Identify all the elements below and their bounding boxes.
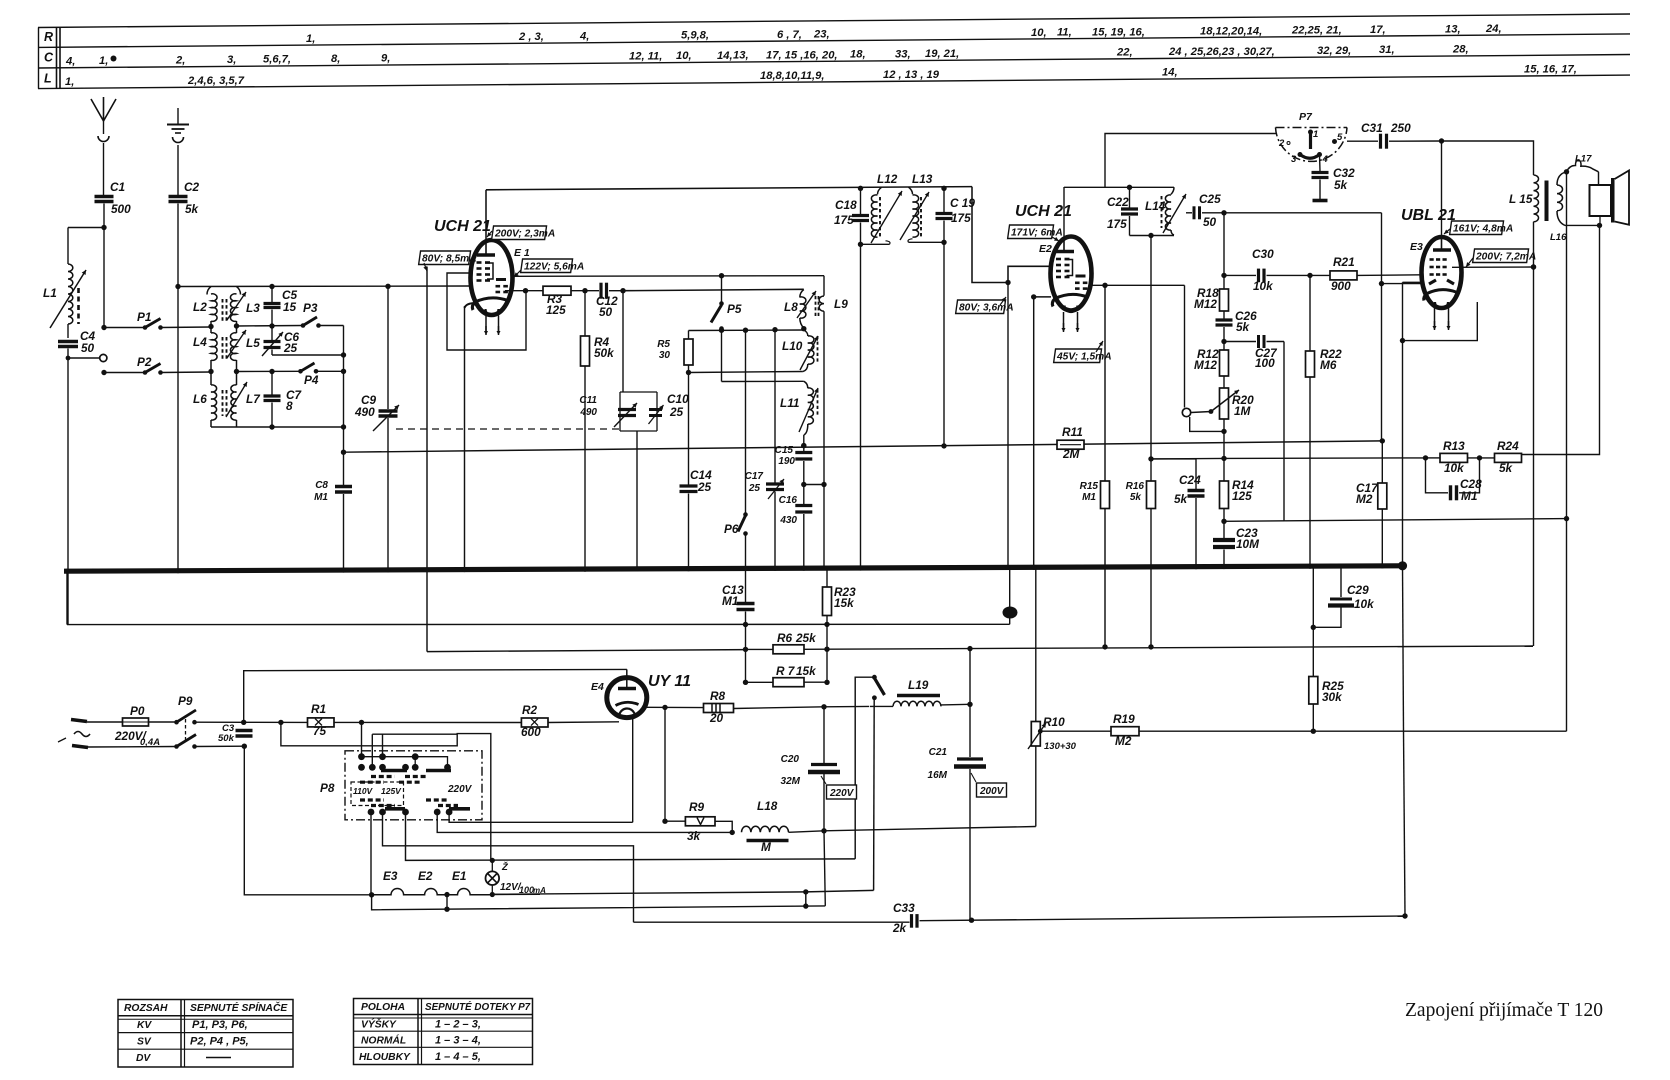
svg-text:28,: 28, bbox=[1452, 44, 1469, 56]
svg-text:4: 4 bbox=[1322, 154, 1329, 165]
wire IF2 tank top bbox=[1064, 186, 1174, 188]
svg-text:5k: 5k bbox=[1130, 492, 1142, 503]
wire L16/L17 node drop bbox=[1566, 172, 1568, 731]
svg-text:C: C bbox=[44, 51, 54, 65]
svg-text:12 , 13 , 19: 12 , 13 , 19 bbox=[883, 69, 940, 81]
svg-text:ROZSAH: ROZSAH bbox=[124, 1003, 168, 1014]
capacitor C18 bbox=[860, 188, 862, 214]
svg-text:R 7: R 7 bbox=[776, 664, 796, 678]
resistor R1 bbox=[308, 718, 335, 727]
core L12 bbox=[879, 197, 881, 237]
svg-text:5,6,7,: 5,6,7, bbox=[263, 54, 291, 66]
transformer core L6/L7 bbox=[223, 390, 227, 416]
svg-text:P0: P0 bbox=[130, 704, 145, 718]
capacitor C1 bbox=[95, 195, 114, 198]
svg-text:5: 5 bbox=[1337, 132, 1343, 143]
svg-text:M2: M2 bbox=[1356, 492, 1373, 506]
node L8 bottom / L10 top bbox=[801, 326, 806, 331]
tube E1 cathode bbox=[475, 298, 508, 302]
wire C31 to L15 bbox=[1442, 141, 1534, 175]
svg-text:15k: 15k bbox=[796, 664, 817, 678]
oscillator coil L8 bbox=[800, 290, 804, 298]
svg-text:R16: R16 bbox=[1126, 481, 1145, 492]
wire R9 to L18 bbox=[715, 821, 732, 832]
tube E4 plate bar bbox=[618, 687, 636, 690]
tube E2 plate bar bbox=[1057, 250, 1075, 253]
wire P8 out to L18 line bbox=[437, 812, 732, 832]
tube E3 heater pins bbox=[1434, 308, 1436, 327]
svg-text:10k: 10k bbox=[1253, 279, 1274, 293]
tube E3 grids bbox=[1430, 258, 1434, 261]
svg-text:M1: M1 bbox=[722, 594, 738, 608]
svg-text:1 – 4 – 5,: 1 – 4 – 5, bbox=[435, 1051, 481, 1063]
switch P7 rotor bbox=[1309, 132, 1312, 149]
wire R23 column bbox=[826, 568, 828, 587]
resistor R13 bbox=[1440, 453, 1468, 462]
wire E4 heater lead bbox=[632, 716, 634, 822]
svg-text:17,: 17, bbox=[1370, 24, 1386, 36]
wire L1 branch down to bus bbox=[67, 358, 69, 625]
svg-text:11,: 11, bbox=[1057, 27, 1072, 39]
svg-text:R5: R5 bbox=[657, 339, 670, 350]
wire E2 cathode line bbox=[1034, 296, 1051, 298]
svg-text:2: 2 bbox=[1278, 138, 1285, 149]
svg-text:161V; 4,8mA: 161V; 4,8mA bbox=[1453, 224, 1513, 235]
node C2 top line bbox=[175, 284, 180, 289]
svg-text:P3: P3 bbox=[303, 301, 318, 315]
wire E1 triode plate line bbox=[513, 275, 824, 278]
svg-text:122V; 5,6mA: 122V; 5,6mA bbox=[524, 262, 584, 273]
wire L3 bottom node bbox=[234, 323, 239, 328]
svg-text:L: L bbox=[44, 72, 52, 86]
core L11 bbox=[817, 389, 819, 417]
node R4 top bbox=[582, 288, 587, 293]
svg-text:31,: 31, bbox=[1379, 44, 1395, 56]
wire P7 contact5 to C31 bbox=[1347, 140, 1378, 142]
tube E3 bottom ring bbox=[1435, 302, 1448, 309]
svg-text:13,: 13, bbox=[1445, 23, 1461, 35]
svg-text:1,: 1, bbox=[65, 76, 74, 88]
svg-text:2,: 2, bbox=[175, 54, 185, 66]
svg-text:L2: L2 bbox=[193, 300, 207, 314]
wire R1 node to P8 bbox=[361, 722, 363, 756]
svg-text:M12: M12 bbox=[1194, 358, 1217, 372]
wire C25 node to C30 line corner bbox=[1224, 212, 1382, 214]
wire P5 bottom node line bbox=[689, 329, 804, 332]
capacitor C4 bbox=[58, 340, 78, 343]
heater bumps E3 E2 E1 bbox=[369, 892, 374, 897]
svg-text:POLOHA: POLOHA bbox=[361, 1002, 405, 1013]
svg-text:L13: L13 bbox=[912, 172, 933, 186]
wire L11 bottom to C15 bbox=[803, 435, 805, 451]
svg-text:6 , 7,: 6 , 7, bbox=[777, 29, 802, 41]
tube E3 beam plates bbox=[1429, 280, 1436, 284]
wire plate top line bbox=[486, 187, 972, 190]
svg-text:4,: 4, bbox=[65, 55, 75, 67]
wire C27 drop bbox=[1283, 342, 1285, 522]
svg-text:18,8,10,11,9,: 18,8,10,11,9, bbox=[760, 70, 825, 82]
core L13 bbox=[920, 197, 922, 237]
tube E1 internal link bbox=[485, 263, 493, 279]
svg-text:M: M bbox=[761, 840, 772, 854]
wire L9 ground column bbox=[823, 485, 825, 569]
svg-text:24,: 24, bbox=[1485, 23, 1502, 35]
wire E1 plate riser bbox=[485, 190, 487, 241]
tube E2 heater pins bbox=[1063, 312, 1065, 329]
svg-text:45V; 1,5mA: 45V; 1,5mA bbox=[1056, 352, 1112, 363]
resistor R5 bbox=[688, 331, 690, 340]
svg-text:L19: L19 bbox=[908, 678, 929, 692]
wire L2 bottom node bbox=[208, 324, 213, 329]
svg-text:220V: 220V bbox=[447, 784, 473, 795]
svg-text:1,: 1, bbox=[306, 33, 315, 45]
core L8/L9 bbox=[816, 296, 819, 317]
capacitor C13 bbox=[737, 602, 755, 605]
svg-text:75: 75 bbox=[313, 724, 327, 738]
wire P8 out to heater via x449 bbox=[449, 812, 633, 822]
svg-text:M1: M1 bbox=[314, 492, 328, 503]
svg-text:UY 11: UY 11 bbox=[648, 673, 691, 690]
svg-text:UCH 21: UCH 21 bbox=[1015, 203, 1072, 220]
tube E4 cathode arcs bbox=[616, 702, 639, 705]
wire E2 triode plate line bbox=[1089, 284, 1185, 286]
wire band filter bottom line bbox=[211, 426, 344, 428]
wire heater mid drop bbox=[446, 895, 448, 909]
callout 200V 7.2mA bbox=[1473, 249, 1529, 263]
svg-text:15, 16, 17,: 15, 16, 17, bbox=[1524, 64, 1577, 76]
svg-text:14,: 14, bbox=[717, 50, 733, 62]
svg-text:2,4,6, 3,5,7: 2,4,6, 3,5,7 bbox=[187, 75, 245, 87]
capacitor C7 bbox=[271, 372, 273, 395]
wire C6 bottom to node bbox=[272, 354, 344, 356]
svg-text:3k: 3k bbox=[687, 829, 702, 843]
svg-text:L8: L8 bbox=[784, 300, 798, 314]
svg-text:R: R bbox=[44, 30, 53, 44]
resistor R7 bbox=[746, 681, 774, 683]
svg-text:23,: 23, bbox=[813, 29, 830, 41]
wire E2 cathode riser to bus and R10 bbox=[1033, 297, 1035, 568]
svg-text:L6: L6 bbox=[193, 392, 207, 406]
switch P4 bbox=[298, 369, 303, 374]
secondary L16 bbox=[1557, 172, 1567, 185]
wire E1 cathode to R3 bbox=[505, 290, 543, 292]
svg-text:25: 25 bbox=[669, 405, 684, 419]
wire IF1 to E2 grid staircase bbox=[972, 187, 1051, 283]
svg-text:1,: 1, bbox=[99, 55, 108, 67]
tube E2 UCH21 envelope bbox=[1051, 237, 1092, 311]
svg-text:R8: R8 bbox=[710, 689, 726, 703]
callout 80V 8.5mA bbox=[419, 251, 471, 265]
antenna bbox=[91, 97, 116, 121]
tube E2 triode plate bar bbox=[1076, 275, 1086, 278]
svg-text:L14: L14 bbox=[1145, 199, 1166, 213]
label 200V box bbox=[977, 783, 1007, 797]
ground line y624 bbox=[67, 623, 1010, 625]
svg-text:33,: 33, bbox=[895, 48, 911, 60]
trimmer C17 bbox=[774, 330, 776, 483]
svg-text:Ž: Ž bbox=[501, 861, 509, 873]
svg-text:5k: 5k bbox=[1334, 178, 1349, 192]
svg-text:10k: 10k bbox=[1444, 461, 1465, 475]
AVC line R11 bbox=[344, 441, 1383, 452]
svg-text:125: 125 bbox=[1232, 489, 1252, 503]
blob junction bbox=[1009, 568, 1011, 624]
tube E1 plate lead bbox=[485, 241, 487, 255]
svg-text:13,: 13, bbox=[733, 50, 749, 62]
svg-text:3: 3 bbox=[1291, 154, 1297, 165]
P8 terminals top bbox=[358, 753, 365, 760]
svg-text:20: 20 bbox=[709, 711, 724, 725]
wire x427 corner to R6 line bbox=[427, 650, 746, 652]
callout 171V 6mA bbox=[1008, 225, 1054, 239]
wire P8 out heater E3E2E1 bbox=[370, 812, 372, 895]
svg-text:R10: R10 bbox=[1043, 715, 1065, 729]
svg-text:2k: 2k bbox=[892, 921, 908, 935]
resistor R19 bbox=[1111, 727, 1139, 736]
node C15/C16 link bbox=[803, 461, 805, 504]
wire P7 feed line bbox=[1105, 134, 1276, 188]
svg-text:175: 175 bbox=[834, 213, 854, 227]
svg-text:M6: M6 bbox=[1320, 358, 1337, 372]
svg-text:24 , 25,26,23 , 30,27,: 24 , 25,26,23 , 30,27, bbox=[1168, 46, 1275, 58]
svg-text:P5: P5 bbox=[727, 302, 742, 316]
fuse P0 bbox=[87, 721, 123, 723]
inductor L4 bbox=[211, 333, 217, 361]
resistor R6 bbox=[746, 648, 774, 650]
capacitor C15 bbox=[795, 451, 812, 454]
svg-text:P1, P3, P6,: P1, P3, P6, bbox=[192, 1019, 248, 1031]
switch P1 bbox=[104, 327, 144, 329]
inductor L3 bbox=[237, 287, 241, 295]
wire wiper to R20 arrow bbox=[1191, 412, 1211, 413]
svg-text:P2: P2 bbox=[137, 355, 152, 369]
wire R19 to feedback column bbox=[1139, 730, 1567, 732]
svg-text:16M: 16M bbox=[928, 770, 948, 781]
svg-text:NORMÁL: NORMÁL bbox=[361, 1034, 406, 1047]
tube E4 UY11 envelope bbox=[607, 678, 647, 718]
wire R5 bottom to L10 bottom bbox=[689, 372, 803, 373]
switch P9 lower bbox=[88, 746, 176, 749]
callout 80V 3.6mA bbox=[956, 300, 1006, 314]
capacitor C27 bbox=[1224, 341, 1256, 343]
label 220V box bbox=[827, 785, 857, 799]
svg-text:10,: 10, bbox=[1031, 27, 1047, 39]
coil L14 bbox=[1171, 187, 1174, 194]
svg-text:5,9,8,: 5,9,8, bbox=[681, 30, 709, 42]
svg-text:R11: R11 bbox=[1062, 425, 1083, 439]
tube E2 plate lead riser bbox=[1063, 237, 1065, 252]
svg-text:C11: C11 bbox=[579, 395, 597, 406]
svg-text:15: 15 bbox=[283, 300, 297, 314]
svg-text:C20: C20 bbox=[781, 754, 800, 765]
wire left edge drop bbox=[66, 571, 68, 624]
heater line to C33 bbox=[634, 921, 910, 923]
svg-text:UBL 21: UBL 21 bbox=[1401, 207, 1456, 224]
svg-text:25k: 25k bbox=[795, 631, 817, 645]
svg-text:L3: L3 bbox=[246, 301, 260, 315]
wire R1 to R2 bbox=[334, 721, 521, 723]
svg-text:UCH 21: UCH 21 bbox=[434, 218, 491, 235]
tube E2 cathode bbox=[1055, 294, 1088, 298]
callout 122V 5.6mA bbox=[521, 259, 573, 273]
wire R20 bottom to R14 node bbox=[1223, 431, 1225, 481]
wire L19 node riser to B+ rail bbox=[969, 649, 971, 705]
svg-text:18,: 18, bbox=[850, 49, 866, 61]
speaker bbox=[1598, 172, 1600, 185]
svg-text:R9: R9 bbox=[689, 800, 705, 814]
pilot lamp Z bbox=[490, 892, 495, 897]
capacitor C19 bbox=[943, 188, 945, 212]
component index table frame bbox=[38, 14, 1630, 28]
svg-text:DV: DV bbox=[136, 1053, 151, 1064]
capacitor C30 bbox=[1257, 269, 1260, 283]
svg-text:R13: R13 bbox=[1443, 439, 1465, 453]
svg-text:490: 490 bbox=[579, 407, 597, 418]
capacitor C28 bbox=[1426, 458, 1449, 493]
svg-text:E1: E1 bbox=[452, 869, 466, 883]
wire L18 to C20 bottom bbox=[789, 831, 825, 833]
svg-text:25: 25 bbox=[697, 480, 712, 494]
wire E2 box left riser bbox=[1007, 283, 1009, 569]
svg-text:15, 19, 16,: 15, 19, 16, bbox=[1092, 26, 1145, 38]
svg-text:9,: 9, bbox=[381, 53, 390, 65]
capacitor C29 bbox=[1340, 567, 1342, 597]
svg-text:L7: L7 bbox=[246, 392, 261, 406]
svg-text:KV: KV bbox=[137, 1020, 152, 1031]
coil L9 bbox=[823, 276, 825, 296]
svg-text:P8: P8 bbox=[320, 781, 335, 795]
svg-text:C31: C31 bbox=[1361, 121, 1383, 135]
resistor R23 bbox=[823, 587, 832, 616]
svg-text:8,: 8, bbox=[331, 53, 340, 65]
svg-text:14,: 14, bbox=[1162, 67, 1178, 79]
mains terminals bbox=[71, 720, 87, 722]
svg-text:R2: R2 bbox=[522, 703, 538, 717]
ground symbol bbox=[177, 108, 179, 124]
svg-text:5k: 5k bbox=[185, 202, 200, 216]
svg-text:P2, P4 , P5,: P2, P4 , P5, bbox=[190, 1036, 249, 1048]
svg-text:3,: 3, bbox=[227, 54, 236, 66]
capacitor C24 bbox=[1195, 459, 1197, 489]
svg-text:E2: E2 bbox=[1039, 243, 1052, 255]
svg-text:900: 900 bbox=[1331, 279, 1351, 293]
svg-text:SEPNUTÉ SPÍNAČE: SEPNUTÉ SPÍNAČE bbox=[190, 1001, 288, 1014]
capacitor C8 bbox=[343, 427, 345, 485]
svg-text:32M: 32M bbox=[781, 776, 801, 787]
svg-text:C25: C25 bbox=[1199, 192, 1221, 206]
svg-text:2 , 3,: 2 , 3, bbox=[518, 31, 544, 43]
coil L13 bbox=[909, 187, 913, 194]
resistor R11 bbox=[1057, 440, 1084, 449]
tube E1 plate bar bbox=[477, 253, 495, 256]
wire E4 down to R9 line bbox=[664, 707, 666, 821]
capacitor C2 bbox=[169, 195, 188, 198]
node L4 bottom bbox=[208, 369, 213, 374]
wire R2 to E4 bbox=[548, 721, 619, 724]
switch P9 upper bbox=[174, 720, 179, 725]
tube E3 top cap lead bbox=[1441, 238, 1443, 251]
wire volume node line y458 bbox=[1151, 457, 1224, 460]
wire L16 bottom to speaker bottom bbox=[1565, 224, 1600, 226]
svg-text:P1: P1 bbox=[137, 310, 151, 324]
volume/R13 line bbox=[1224, 457, 1426, 460]
power rail to P8 bbox=[244, 669, 627, 722]
svg-text:L1: L1 bbox=[43, 286, 57, 300]
svg-text:M1: M1 bbox=[1082, 492, 1096, 503]
node C3 top bbox=[241, 720, 246, 725]
wire C4 to terminal bbox=[67, 349, 69, 359]
B+ rail y648 bbox=[827, 646, 1533, 649]
tuning capacitor C11 bbox=[620, 392, 657, 431]
resistor R16 bbox=[1147, 481, 1156, 509]
svg-text:C29: C29 bbox=[1347, 583, 1369, 597]
svg-text:100: 100 bbox=[1255, 356, 1275, 370]
capacitor C16 bbox=[795, 504, 812, 507]
tube E4 plate lead bbox=[626, 669, 628, 688]
svg-text:17, 15 ,16, 20,: 17, 15 ,16, 20, bbox=[766, 49, 838, 61]
capacitor C33 bbox=[910, 914, 913, 928]
wire R8 to C20 node bbox=[734, 707, 825, 709]
wire R10 to R19 bbox=[1040, 730, 1111, 732]
svg-text:2M: 2M bbox=[1062, 447, 1081, 461]
output transformer L15 bbox=[1534, 175, 1539, 222]
wire node B drop to P8 region bbox=[281, 722, 491, 860]
node L5 bottom bbox=[234, 369, 239, 374]
wire E1 cathode ground drop bbox=[465, 303, 477, 308]
resistor R18 bbox=[1220, 289, 1229, 311]
svg-text:15k: 15k bbox=[834, 596, 855, 610]
switch P5 bbox=[721, 276, 723, 302]
node antenna junction bbox=[101, 225, 106, 230]
tube E3 UBL21 envelope bbox=[1422, 237, 1462, 308]
tube E2 grids bbox=[1056, 258, 1061, 261]
svg-text:C33: C33 bbox=[893, 901, 915, 915]
wire P5 drop to L11 top bbox=[722, 380, 804, 382]
wire E3 box riser to bus end bbox=[1402, 341, 1404, 566]
node R14 bottom bbox=[1223, 509, 1225, 539]
svg-text:C24: C24 bbox=[1179, 473, 1201, 487]
P8 winding dashes bbox=[371, 775, 395, 778]
terminal circle bbox=[100, 354, 107, 361]
tube E2 bottom ring bbox=[1065, 306, 1078, 313]
wire heater line right bbox=[492, 890, 873, 894]
wiper terminal circle bbox=[1182, 408, 1190, 416]
capacitor C12 bbox=[599, 283, 602, 299]
wire R20 bottom loop to wiper bbox=[1190, 417, 1224, 431]
potentiometer R20 bbox=[1223, 376, 1225, 388]
svg-text:10M: 10M bbox=[1236, 537, 1260, 551]
callout 161V 4.8mA bbox=[1450, 221, 1504, 235]
svg-text:30k: 30k bbox=[1322, 690, 1343, 704]
svg-text:M2: M2 bbox=[1115, 734, 1132, 748]
tube E1 UCH21 envelope bbox=[471, 240, 513, 315]
capacitor C21 bbox=[969, 704, 971, 757]
svg-text:L5: L5 bbox=[246, 336, 260, 350]
tube E2 triode grids bbox=[1075, 281, 1080, 284]
resistor R24 bbox=[1495, 453, 1522, 462]
svg-text:P4: P4 bbox=[304, 373, 319, 387]
svg-text:125V: 125V bbox=[381, 786, 402, 796]
wire L5 bottom to P4 bbox=[237, 370, 301, 372]
resistor R9 bbox=[665, 820, 685, 822]
svg-text:E 1: E 1 bbox=[514, 247, 530, 259]
svg-text:110V: 110V bbox=[353, 786, 374, 796]
tube E3 plate bar bbox=[1433, 248, 1451, 251]
svg-text:C1: C1 bbox=[110, 180, 125, 194]
wire live to R1 bbox=[244, 721, 308, 723]
svg-text:E4: E4 bbox=[591, 681, 604, 693]
capacitor C3 bbox=[236, 729, 253, 732]
